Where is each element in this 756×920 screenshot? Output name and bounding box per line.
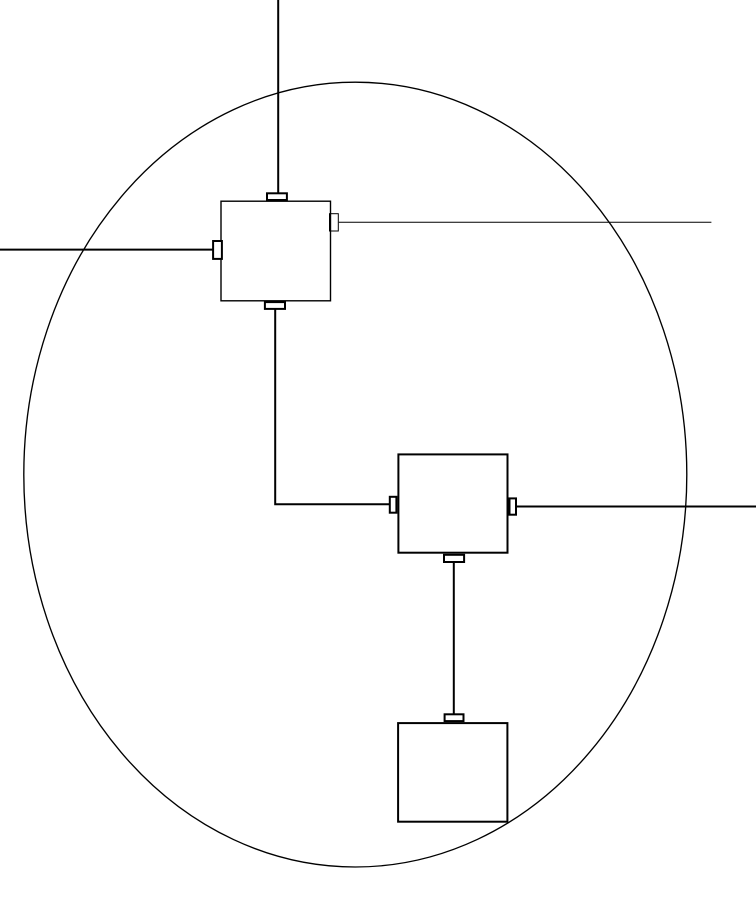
port B1 left <box>213 241 222 259</box>
ellipse boundary <box>24 82 687 867</box>
block B1 (thin-bordered subsystem) <box>221 201 331 301</box>
wire W2 (left horizontal into B1 left port) <box>0 249 213 251</box>
port B2 right <box>510 498 517 514</box>
wire W3 (thin horizontal from B1 right port) <box>339 221 712 223</box>
port B2 left <box>390 497 397 513</box>
block B2 (thick-bordered subsystem) <box>398 454 507 552</box>
wire W1 (top vertical into B1 top port) <box>277 0 279 193</box>
port B1 bottom <box>265 302 285 309</box>
wire W6 (vertical from B2 bottom port to B3 top port) <box>453 562 455 714</box>
wire W5 (horizontal from B2 right port to right edge) <box>517 506 756 508</box>
port B1 right <box>330 214 339 231</box>
port B1 top <box>267 193 287 200</box>
wire W4 (L-shape from B1 bottom port to B2 left port) <box>275 309 389 505</box>
block B3 (thick-bordered subsystem) <box>398 723 507 822</box>
port B3 top <box>445 714 464 721</box>
port B2 bottom <box>444 555 464 562</box>
